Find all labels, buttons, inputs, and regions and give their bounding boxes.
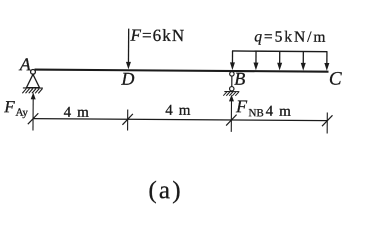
dim tick at D bbox=[122, 114, 132, 125]
distributed load arrows bbox=[232, 51, 326, 64]
svg-text:4m: 4m bbox=[165, 103, 196, 119]
reaction arrow F_Ay (upward) bbox=[32, 97, 34, 130]
pin support at A : hinge circle bbox=[31, 69, 36, 74]
point load F=6kN arrow at D bbox=[127, 29, 129, 64]
svg-text:F=6kN: F=6kN bbox=[129, 26, 185, 45]
pin support at A : triangle bbox=[26, 74, 39, 87]
distributed load q top line bbox=[232, 50, 327, 53]
ground line at A bbox=[23, 87, 43, 89]
reaction arrow F_NB (upward) bbox=[230, 99, 232, 131]
svg-text:q=5kN/m: q=5kN/m bbox=[254, 28, 327, 46]
ground hatching at B bbox=[223, 92, 239, 96]
dim tick at A bbox=[28, 113, 38, 124]
svg-text:F: F bbox=[3, 97, 15, 116]
dimension line bbox=[33, 119, 327, 121]
ground line at B bbox=[224, 91, 239, 93]
extension line at D bbox=[127, 109, 129, 130]
ground hatching at A bbox=[22, 89, 42, 94]
svg-text:F: F bbox=[235, 96, 248, 116]
svg-text:NB: NB bbox=[248, 107, 263, 119]
svg-text:C: C bbox=[329, 68, 342, 89]
roller support at B : lower hinge circle bbox=[230, 87, 234, 91]
svg-text:4m: 4m bbox=[266, 104, 297, 120]
extension line at C bbox=[326, 113, 328, 134]
svg-text:A: A bbox=[19, 54, 32, 74]
svg-text:D: D bbox=[120, 69, 134, 89]
roller support at B : upper hinge circle bbox=[230, 72, 234, 76]
beam A-C bbox=[35, 70, 329, 72]
svg-text:4m: 4m bbox=[64, 105, 95, 121]
dim tick at B bbox=[226, 115, 236, 126]
roller support at B : link bbox=[231, 76, 233, 86]
svg-text:Ay: Ay bbox=[15, 107, 28, 119]
svg-text:(a): (a) bbox=[148, 177, 183, 204]
svg-text:B: B bbox=[234, 69, 245, 89]
dim tick at C bbox=[322, 115, 332, 126]
